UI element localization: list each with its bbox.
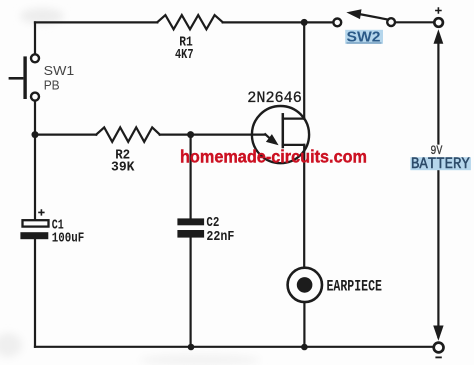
transistor emitter arrowhead: [266, 134, 279, 145]
label SW2 underline: [347, 42, 382, 44]
switch SW2 left terminal: [333, 19, 341, 27]
switch SW2 right terminal: [387, 18, 395, 26]
wire: right rail from + arrow down to 9V label gap: [437, 41, 439, 144]
svg-text:PB: PB: [44, 78, 60, 92]
wire: C1 bottom to bottom-left corner: [34, 239, 36, 346]
battery - terminal circle: [434, 343, 444, 353]
svg-text:100uF: 100uF: [52, 230, 85, 246]
svg-text:2N2646: 2N2646: [247, 89, 301, 107]
node: top junction dot: [301, 19, 308, 26]
capacitor C1 + sign: [38, 209, 44, 215]
wire: top-left riser from top wire down to SW1: [34, 22, 36, 53]
switch SW1 bottom terminal: [31, 93, 39, 101]
capacitor C2 top plate: [177, 218, 204, 225]
switch SW1 top terminal: [31, 54, 39, 62]
node: left mid junction dot: [32, 131, 39, 138]
battery + terminal circle: [434, 18, 443, 27]
switch SW1 actuator stem: [9, 77, 24, 80]
wire: UJT base-2 stub: [283, 117, 304, 119]
wire: right rail from BATTERY label down to - arrow: [437, 171, 439, 338]
wire: SW1 bottom to mid junction down to C1: [34, 101, 36, 219]
background smudge bottom-left: [0, 333, 22, 357]
capacitor C1 bottom plate: [20, 232, 48, 239]
svg-text:BATTERY: BATTERY: [411, 155, 470, 173]
battery + sign: [435, 7, 442, 14]
resistor R2 zigzag body: [96, 127, 160, 141]
wire: middle horizontal from left junction to R2: [35, 134, 96, 136]
svg-text:EARPIECE: EARPIECE: [327, 278, 383, 296]
label BATTERY highlight: [410, 157, 471, 170]
wire: earpiece bottom to bottom rail junction: [303, 302, 305, 347]
node: R2/C2 junction dot: [187, 131, 194, 138]
wire: top horizontal, corner to R1: [35, 21, 157, 23]
wire: UJT base bar: [282, 114, 285, 147]
background smudge top-left: [20, 8, 64, 24]
svg-text:homemade-circuits.com: homemade-circuits.com: [180, 146, 367, 166]
wire: UJT base-1 stub: [283, 144, 304, 146]
switch SW1 actuator bar: [23, 56, 26, 99]
svg-text:39K: 39K: [111, 160, 135, 176]
svg-text:22nF: 22nF: [206, 229, 234, 245]
capacitor C1 top plate (electrolytic outline): [23, 220, 49, 226]
wire: C2 bottom plate down to bottom rail: [190, 238, 192, 347]
wire: SW2 right terminal to + battery terminal: [395, 21, 434, 23]
earpiece outer circle: [288, 268, 322, 302]
earpiece inner dot: [297, 277, 313, 293]
wire: top junction down to UJT base-2 stub: [303, 22, 305, 118]
battery up arrowhead: [434, 29, 444, 43]
wire: emitter angled segment into UJT: [265, 134, 272, 141]
switch SW2 lever arrowhead: [346, 9, 361, 19]
battery down arrowhead: [433, 326, 443, 341]
switch SW2 lever: [359, 14, 389, 20]
battery - sign: [435, 356, 441, 358]
wire: base-1 stub down to earpiece: [303, 145, 305, 268]
resistor R1 zigzag body: [157, 15, 222, 29]
transistor U1 2N2646 circle: [252, 106, 309, 163]
wire: bottom horizontal rail: [35, 346, 434, 348]
node: C2 bottom rail junction dot: [188, 344, 195, 351]
label SW2 highlight: [345, 30, 383, 44]
node: earpiece bottom rail junction dot: [301, 344, 308, 351]
wire: R1 to top junction and on to SW2 left terminal: [223, 21, 334, 23]
capacitor C2 bottom plate: [177, 230, 204, 238]
background smudge bottom-mid: [140, 354, 260, 365]
svg-text:4K7: 4K7: [175, 47, 194, 63]
svg-text:SW2: SW2: [347, 28, 381, 45]
svg-text:SW1: SW1: [44, 64, 75, 78]
wire: C2 junction down to C2 top plate: [190, 135, 192, 219]
wire: R2 to C2 junction and on to UJT emitter: [160, 134, 265, 136]
